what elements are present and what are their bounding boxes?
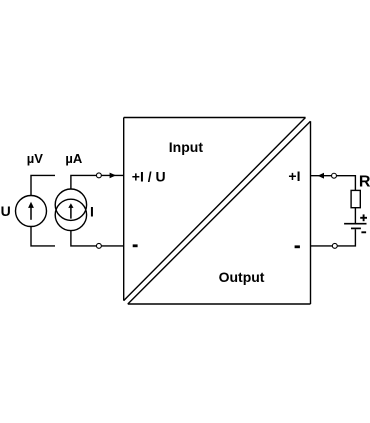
arrow into output plus xyxy=(318,173,324,179)
wire terminal to box output minus xyxy=(311,245,333,247)
wire box output plus to terminal xyxy=(311,175,332,177)
terminal input plus xyxy=(96,173,101,178)
current source I1 circle upper xyxy=(55,189,86,220)
voltage source V1 arrow xyxy=(28,202,34,220)
isolator box U1 top edge xyxy=(124,117,306,119)
current source I1 circle lower xyxy=(55,199,86,230)
battery BT1 plus plate xyxy=(344,223,366,225)
wire terminal to box input plus xyxy=(102,174,124,176)
svg-text:Output: Output xyxy=(219,269,265,285)
terminal output minus xyxy=(332,243,337,248)
wire V1 top xyxy=(31,175,55,195)
isolator box U1 left edge xyxy=(123,118,125,301)
isolator box U1 right edge xyxy=(310,121,312,304)
pin label - (output minus) xyxy=(295,245,300,248)
isolator box U1 diagonal 1 xyxy=(124,118,306,301)
terminal input minus xyxy=(96,243,101,248)
svg-text:R: R xyxy=(359,174,370,191)
battery plus label xyxy=(360,214,367,221)
svg-text:µV: µV xyxy=(27,151,43,166)
wire terminal to resistor xyxy=(337,176,356,191)
wire V1 bottom xyxy=(31,226,55,246)
wire terminal to box input minus xyxy=(102,245,124,247)
battery BT1 minus plate xyxy=(351,227,361,229)
svg-text:I: I xyxy=(90,203,94,219)
battery minus label xyxy=(361,231,366,233)
current source I1 arrow xyxy=(68,203,73,218)
terminal output plus xyxy=(332,173,337,178)
svg-text:+I: +I xyxy=(288,168,300,184)
wire I1 bottom xyxy=(71,231,97,246)
svg-text:µA: µA xyxy=(65,151,82,166)
isolator box U1 bottom edge xyxy=(128,303,311,305)
wire I1 top xyxy=(71,175,97,189)
arrow into input xyxy=(110,173,116,179)
isolator box U1 diagonal 2 xyxy=(128,121,311,304)
pin label - (input minus) xyxy=(133,244,138,247)
svg-text:Input: Input xyxy=(169,139,204,155)
wire resistor to battery xyxy=(354,208,356,224)
resistor R xyxy=(351,190,360,207)
svg-text:+I / U: +I / U xyxy=(132,169,166,185)
wire battery to terminal xyxy=(337,229,355,246)
svg-text:U: U xyxy=(1,203,11,219)
voltage source V1 circle xyxy=(16,196,47,227)
